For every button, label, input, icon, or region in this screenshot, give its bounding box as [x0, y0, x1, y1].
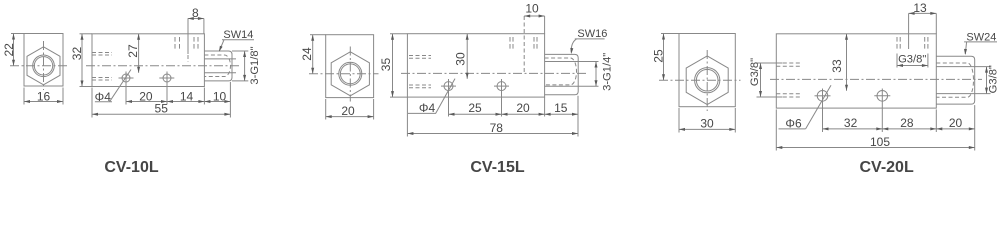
CV-20L ext line nipple right bottom — [974, 105, 976, 150]
CV-10L side view nipple — [204, 51, 232, 81]
CV-10L Phi4 underline — [95, 101, 112, 103]
CV-15L dim 24 extension line — [310, 34, 326, 36]
CV-10L ext line body right bottom — [203, 88, 205, 105]
CV-10L dim 8 right extension — [203, 19, 205, 34]
svg-text:Φ4: Φ4 — [419, 101, 436, 115]
CV-10L nipple thread lines — [204, 58, 236, 60]
CV-20L end view bore circle — [696, 69, 718, 91]
CV-10L dimension 32 line — [81, 34, 83, 87]
svg-text:3-G1/8": 3-G1/8" — [249, 46, 261, 84]
CV-15L ext line body left bottom — [406, 97, 408, 136]
svg-text:22: 22 — [2, 43, 16, 57]
svg-text:3-G1/4": 3-G1/4" — [601, 53, 613, 91]
CV-10L side view centerline — [86, 65, 241, 67]
svg-text:CV-10L: CV-10L — [104, 159, 158, 176]
CV-20L interior G3/8 dim line — [897, 65, 928, 67]
CV-10L Phi4 leader — [110, 70, 132, 102]
svg-text:15: 15 — [554, 101, 568, 115]
svg-text:CV-20L: CV-20L — [859, 159, 913, 176]
svg-text:Φ6: Φ6 — [785, 116, 802, 130]
CV-15L bottom port circle 1 — [444, 82, 453, 91]
CV-20L ext line body right bottom — [935, 109, 937, 132]
CV-15L circle 1 axis + extension — [448, 79, 450, 117]
CV-15L nipple bore hidden line — [545, 58, 577, 85]
CV-15L thread dim line — [595, 62, 597, 87]
CV-20L dimension 28 line — [882, 128, 936, 130]
CV-20L Phi6 underline — [779, 128, 806, 130]
CV-15L nipple thread lines — [545, 61, 599, 63]
CV-10L left port hidden lines — [92, 52, 112, 54]
CV-20L interior G3/8 dim bars — [896, 54, 898, 68]
svg-text:10: 10 — [213, 90, 227, 104]
CV-20L nipple bore hidden line — [936, 63, 973, 97]
CV-10L thread dim extension lines — [232, 50, 248, 52]
CV-10L dim 22 extension line — [11, 33, 24, 35]
CV-15L circle 2 axis + extension — [501, 79, 503, 117]
CV-20L left port hidden lines — [776, 62, 800, 64]
CV-20L end view horizontal centerline — [659, 79, 741, 81]
CV-10L nipple bore hidden line — [204, 55, 230, 77]
CV-10L side view body — [92, 34, 204, 87]
CV-10L dim 32 extension lines — [80, 33, 93, 35]
CV-15L dim 10 right extension — [544, 16, 546, 34]
CV-20L dimension 30 line — [679, 128, 735, 130]
svg-text:33: 33 — [830, 59, 844, 73]
CV-20L SW24 leader — [964, 41, 997, 43]
CV-10L circle 2 axis + extension — [166, 72, 168, 105]
CV-20L interior hidden hole right pair — [924, 37, 926, 49]
CV-20L dim 25 extension line — [661, 33, 679, 35]
CV-10L end view horizontal centerline — [10, 65, 68, 67]
CV-15L dimension 30 line — [466, 34, 468, 79]
CV-15L dimension 15 line — [545, 113, 578, 115]
svg-text:SW16: SW16 — [577, 28, 607, 40]
CV-15L dim 20 extension lines — [325, 99, 327, 120]
CV-10L circle 1 axis + extension — [125, 72, 127, 105]
CV-15L left port hidden lines — [409, 55, 431, 57]
svg-text:16: 16 — [37, 90, 51, 104]
svg-text:55: 55 — [155, 102, 169, 116]
svg-text:78: 78 — [490, 121, 504, 135]
svg-text:25: 25 — [468, 101, 482, 115]
CV-15L dimension 10 line — [524, 15, 544, 17]
CV-15L dimension 20b line — [502, 113, 545, 115]
CV-10L end view vertical centerline — [43, 41, 45, 90]
CV-15L Phi4 underline — [408, 112, 436, 114]
CV-10L end view hexagon — [27, 47, 60, 85]
svg-text:35: 35 — [379, 58, 393, 72]
CV-10L dimension 22 line — [13, 34, 15, 66]
svg-text:28: 28 — [900, 116, 914, 130]
CV-10L dimension 55 line — [92, 113, 230, 115]
CV-10L end view bore circle — [34, 57, 52, 75]
CV-15L end view square body — [326, 35, 374, 98]
CV-20L side view body — [776, 34, 936, 108]
CV-15L interior hidden hole right pair — [533, 37, 535, 49]
CV-10L dimension 8 line — [188, 18, 204, 20]
CV-15L end view thread circle — [339, 62, 362, 85]
CV-20L side view nipple — [936, 56, 974, 104]
CV-15L dimension 20 line — [326, 116, 374, 118]
CV-15L side view nipple — [545, 54, 579, 94]
CV-20L dimension 33 line — [846, 34, 848, 91]
svg-text:14: 14 — [180, 90, 194, 104]
CV-20L left thread dim ticks — [757, 62, 783, 64]
CV-20L end view vertical centerline — [706, 50, 708, 111]
CV-15L end view horizontal centerline — [309, 73, 379, 75]
CV-20L dimension 13 line — [909, 12, 937, 14]
svg-text:32: 32 — [70, 47, 84, 61]
CV-15L interior hidden hole left pair — [509, 37, 511, 49]
svg-text:10: 10 — [525, 1, 539, 15]
svg-text:24: 24 — [300, 47, 314, 61]
CV-15L dimension 25 line — [449, 113, 502, 115]
CV-10L dimension 16 line — [24, 101, 63, 103]
CV-10L bottom port circle 2 — [163, 74, 171, 82]
CV-15L end view hexagon — [331, 52, 369, 96]
svg-text:G3/8": G3/8" — [749, 58, 761, 86]
CV-10L end view square body — [24, 34, 63, 87]
CV-10L SW14 leader — [222, 39, 254, 41]
CV-10L bottom port circle 1 — [122, 74, 130, 82]
CV-20L end view thread circle — [695, 68, 720, 93]
CV-15L interior port centerline — [523, 16, 525, 73]
CV-15L dimension 35 line — [392, 34, 394, 97]
CV-10L dimension 27 line — [138, 34, 140, 73]
CV-20L circle 2 axis + extension — [881, 89, 883, 133]
CV-10L dimension 20 line — [126, 101, 167, 103]
CV-20L dimension 105 line — [776, 147, 975, 149]
svg-text:20: 20 — [341, 104, 355, 118]
CV-20L side view centerline — [770, 78, 982, 80]
CV-10L ext line body left bottom — [91, 88, 93, 118]
CV-20L dimension 25 line — [663, 34, 665, 81]
CV-20L dim 30 extension lines — [678, 108, 680, 133]
CV-15L ext line body right bottom — [544, 97, 546, 116]
CV-15L side view body — [407, 34, 544, 97]
CV-15L end view bore circle — [340, 64, 360, 84]
CV-20L circle 1 axis + extension — [822, 89, 824, 133]
svg-text:105: 105 — [870, 135, 890, 149]
CV-15L dimension 78 line — [407, 133, 578, 135]
CV-10L dimension 14 line — [167, 101, 204, 103]
CV-20L left thread dim line — [760, 63, 762, 97]
svg-text:25: 25 — [651, 49, 665, 63]
CV-10L end view thread circle — [33, 55, 55, 77]
CV-20L nipple thread lines — [936, 66, 990, 68]
svg-text:20: 20 — [139, 90, 153, 104]
svg-text:27: 27 — [126, 44, 140, 58]
CV-15L SW16 leader — [575, 38, 605, 40]
CV-20L bottom port circle 2 — [877, 91, 888, 102]
CV-10L interior hidden hole left pair — [174, 37, 176, 49]
CV-10L interior hidden hole right pair — [193, 37, 195, 49]
CV-15L bottom port circle 2 — [497, 82, 506, 91]
svg-text:20: 20 — [516, 101, 530, 115]
svg-text:30: 30 — [453, 52, 467, 66]
svg-text:G3/8": G3/8" — [988, 65, 1000, 93]
CV-10L thread dim line — [244, 51, 246, 81]
CV-15L side view centerline — [401, 72, 587, 74]
CV-15L dimension 24 line — [312, 35, 314, 74]
CV-15L dim 35 extension lines — [390, 33, 407, 35]
CV-20L end view hexagon — [686, 56, 728, 105]
CV-20L dimension 20 line — [936, 128, 975, 130]
CV-20L bottom port circle 1 — [817, 91, 828, 102]
svg-text:30: 30 — [700, 116, 714, 130]
CV-10L ext line nipple right bottom — [229, 82, 231, 118]
CV-20L ext line body left bottom — [775, 109, 777, 150]
CV-15L ext line nipple right bottom — [577, 96, 579, 137]
CV-20L dimension 32 line — [823, 128, 883, 130]
CV-20L right thread dim line — [986, 67, 988, 94]
svg-text:20: 20 — [949, 116, 963, 130]
svg-text:CV-15L: CV-15L — [470, 159, 524, 176]
CV-10L dim 16 extension lines — [23, 88, 25, 105]
svg-text:G3/8": G3/8" — [898, 54, 926, 66]
CV-20L interior hidden hole left pair — [896, 37, 898, 49]
svg-text:SW14: SW14 — [223, 29, 253, 41]
CV-20L dim 13 extensions — [908, 13, 910, 49]
CV-20L end view square body — [679, 34, 735, 107]
CV-20L Phi6 leader — [806, 85, 831, 129]
CV-15L end view vertical centerline — [349, 47, 351, 102]
CV-15L Phi4 leader — [436, 79, 455, 114]
CV-10L interior port line — [187, 19, 189, 55]
CV-10L dimension 10 line — [204, 101, 230, 103]
svg-text:32: 32 — [844, 116, 858, 130]
